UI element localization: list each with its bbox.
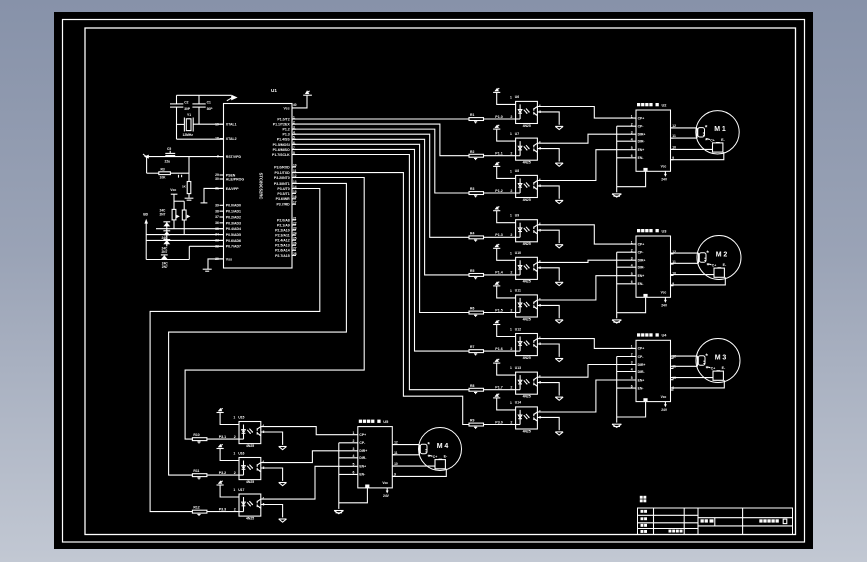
svg-text:39: 39 xyxy=(215,203,219,207)
svg-text:30: 30 xyxy=(215,177,219,181)
svg-text:21: 21 xyxy=(293,216,297,220)
wire R10 to U15 xyxy=(207,438,239,440)
svg-text:CP+: CP+ xyxy=(638,116,645,120)
svg-text:R9: R9 xyxy=(470,419,474,423)
wire M2 phase A- xyxy=(671,262,699,264)
wire crystal top rail xyxy=(177,94,232,96)
driver U2 body xyxy=(636,110,671,171)
ground U7 xyxy=(555,162,563,164)
mcu pin 36 P0.3/AD3 xyxy=(220,222,224,224)
svg-text:CP+: CP+ xyxy=(359,433,366,437)
mcu pin 16 P3.6/WR xyxy=(292,198,296,200)
svg-text:4N25: 4N25 xyxy=(523,242,531,246)
svg-text:1: 1 xyxy=(510,328,512,332)
wire P1.7 to R8 xyxy=(292,154,469,389)
mcu pin 5 P1.4/SS xyxy=(292,138,296,140)
wire M1 phase A+ xyxy=(671,127,698,129)
mcu pin 24 P2.3/A11 xyxy=(292,234,296,236)
driver U5 bottom pin xyxy=(365,485,369,488)
capacitor C2 xyxy=(170,103,183,105)
wire EA to ground bar xyxy=(204,188,224,203)
wire U7 pin1 xyxy=(497,129,516,141)
svg-text:RST/VPD: RST/VPD xyxy=(226,155,242,159)
wire U15 pin2 entry xyxy=(239,438,244,440)
wire U6 pin1 xyxy=(497,92,516,104)
optocoupler U15 body xyxy=(239,422,261,444)
outer border frame xyxy=(63,20,805,543)
svg-text:P0.0/AD0: P0.0/AD0 xyxy=(226,204,241,208)
svg-text:P3.0: P3.0 xyxy=(495,420,502,424)
wire crystal left leg xyxy=(177,123,185,125)
svg-text:4: 4 xyxy=(539,222,541,226)
svg-text:P1.5: P1.5 xyxy=(495,308,502,312)
svg-text:2N7: 2N7 xyxy=(160,213,166,217)
svg-text:Vcc: Vcc xyxy=(170,188,176,192)
opto U6 LED xyxy=(519,104,521,119)
wire R8 to U13 xyxy=(484,389,516,391)
svg-text:1: 1 xyxy=(510,169,512,173)
diode D4 on rail xyxy=(161,254,168,256)
wire opto to U3 pin5 xyxy=(537,276,636,300)
wire cap C2 branch xyxy=(176,95,178,103)
svg-text:1: 1 xyxy=(510,132,512,136)
svg-text:4N25: 4N25 xyxy=(523,161,531,165)
svg-text:16: 16 xyxy=(293,195,297,199)
svg-text:U10: U10 xyxy=(515,251,521,255)
diode chain D1 xyxy=(163,221,170,223)
wire U2 bottom pin to ground xyxy=(617,171,646,186)
svg-text:XTAL1: XTAL1 xyxy=(226,123,237,127)
svg-text:P0.5/AD5: P0.5/AD5 xyxy=(226,233,241,237)
opto U12 light arrows xyxy=(524,342,527,346)
power symbol VCC U17 xyxy=(217,484,224,486)
ground U5 xyxy=(334,510,343,512)
wire cap C1 branch xyxy=(198,95,200,103)
resistor R1 xyxy=(469,118,484,121)
driver U2 bottom pin xyxy=(643,168,647,171)
motor M4 B terminal box xyxy=(435,460,445,469)
svg-text:P1.7: P1.7 xyxy=(495,386,502,390)
wire U4 minus pins common xyxy=(616,357,618,423)
diode chain D3 xyxy=(163,239,170,241)
wire RP2 to P0.5 xyxy=(183,220,185,235)
svg-text:DIR-: DIR- xyxy=(638,140,645,144)
svg-text:EN+: EN+ xyxy=(359,465,366,469)
svg-text:40: 40 xyxy=(293,103,297,107)
wire RST line xyxy=(145,156,224,158)
ground U13 xyxy=(555,396,563,398)
svg-text:38: 38 xyxy=(215,209,219,213)
svg-text:DIR+: DIR+ xyxy=(638,363,646,367)
wire P0.5 xyxy=(146,234,223,236)
optocoupler U12 body xyxy=(516,334,538,356)
title block school name xyxy=(759,519,762,522)
driver U5 title xyxy=(359,420,362,423)
wire U16 pin2 entry xyxy=(239,474,244,476)
opto U6 phototransistor xyxy=(533,108,535,111)
optocoupler U6 body xyxy=(516,101,538,123)
wire opto U15 to U5 pin1 xyxy=(261,427,358,435)
motor M2 body xyxy=(697,236,741,280)
wire opto to U2 pin3 xyxy=(537,134,636,143)
driver U3 bottom pin xyxy=(643,294,647,297)
svg-text:2: 2 xyxy=(510,386,512,390)
wire M3 phase B- xyxy=(671,380,725,388)
svg-text:EN+: EN+ xyxy=(638,378,645,382)
mcu pin 37 P0.2/AD2 xyxy=(220,216,224,218)
wire P3.1 to R10 xyxy=(185,178,364,440)
wire U9 pin1 xyxy=(497,211,516,223)
svg-text:P3.7/RD: P3.7/RD xyxy=(276,203,290,207)
svg-text:2: 2 xyxy=(234,507,236,511)
svg-text:U9: U9 xyxy=(515,214,519,218)
svg-text:27: 27 xyxy=(293,247,297,251)
wire U17 pin1 xyxy=(220,485,239,497)
svg-text:M1: M1 xyxy=(714,126,727,133)
mcu pin 14 P3.4/T0 xyxy=(292,188,296,190)
mcu pin 33 P0.6/AD6 xyxy=(220,239,224,241)
wire P1.3 to R4 xyxy=(292,134,469,237)
svg-text:P1.4/SS: P1.4/SS xyxy=(277,138,291,142)
opto U10 light arrows xyxy=(524,266,527,270)
driver U3 pin 9 xyxy=(671,285,674,287)
svg-text:P2.5/A13: P2.5/A13 xyxy=(275,244,290,248)
svg-text:U17: U17 xyxy=(238,488,244,492)
mcu pin 35 P0.4/AD4 xyxy=(220,228,224,230)
opto U8 light arrows xyxy=(524,184,527,188)
svg-text:Vcc: Vcc xyxy=(661,165,667,169)
wire U16 pin5 to ground xyxy=(261,468,283,481)
power symbol VCC U10 xyxy=(493,247,500,249)
svg-text:1: 1 xyxy=(510,401,512,405)
svg-text:4N25: 4N25 xyxy=(523,280,531,284)
svg-text:U14: U14 xyxy=(515,401,521,405)
svg-text:Vss: Vss xyxy=(226,257,232,261)
BD arrow up xyxy=(144,219,148,224)
wire P3.0 to R9 xyxy=(292,173,469,425)
opto U13 light arrows xyxy=(524,380,527,384)
resistor R3 xyxy=(469,192,484,195)
svg-text:P3.4/T0: P3.4/T0 xyxy=(277,187,289,191)
svg-text:P1.5/MOSI: P1.5/MOSI xyxy=(273,143,290,147)
driver U2 pin 12 xyxy=(671,127,674,129)
svg-text:EN-: EN- xyxy=(638,282,644,286)
resistor R11 xyxy=(192,474,207,477)
opto U15 light arrows xyxy=(247,430,250,434)
svg-text:P1.7/SCLK: P1.7/SCLK xyxy=(272,153,290,157)
svg-text:C1: C1 xyxy=(207,100,211,104)
wire U9 pin2 entry xyxy=(516,236,521,238)
driver U4 pin 10 xyxy=(671,379,674,381)
mcu pin 10 P3.0/RXD xyxy=(292,166,296,168)
svg-text:P3.5/T1: P3.5/T1 xyxy=(277,192,289,196)
svg-text:DIR-: DIR- xyxy=(638,370,645,374)
mcu pin 17 P3.7/RD xyxy=(292,203,296,205)
wire M4 phase A- xyxy=(392,454,419,456)
svg-text:U16: U16 xyxy=(238,451,244,455)
wire U4 bottom pin to ground xyxy=(617,402,646,417)
resistor R10 xyxy=(192,438,207,441)
svg-text:CP+: CP+ xyxy=(638,242,645,246)
svg-text:P3.0/RXD: P3.0/RXD xyxy=(274,165,290,169)
opto U10 phototransistor xyxy=(533,264,535,267)
opto U16 light arrows xyxy=(247,466,250,470)
svg-text:P2.7/A15: P2.7/A15 xyxy=(275,254,290,258)
mcu pin 27 P2.6/A14 xyxy=(292,249,296,251)
wire M1 phase B+ xyxy=(671,148,713,150)
resistor R12 xyxy=(192,510,207,513)
svg-text:C+: C+ xyxy=(711,367,715,371)
svg-text:P1.3: P1.3 xyxy=(282,133,289,137)
svg-text:P3.1: P3.1 xyxy=(219,435,226,439)
ground U11 xyxy=(555,319,563,321)
wire U7 pin5 to ground xyxy=(537,149,559,162)
wire M3 phase A+ xyxy=(671,355,698,357)
svg-text:C2: C2 xyxy=(184,100,188,104)
wire U3 bottom pin to ground xyxy=(617,297,646,312)
svg-text:11: 11 xyxy=(394,451,398,455)
opto U8 phototransistor xyxy=(533,182,535,185)
wire M4 phase A+ xyxy=(392,444,419,446)
svg-text:P0.2/AD2: P0.2/AD2 xyxy=(226,215,241,219)
svg-text:4N25: 4N25 xyxy=(523,395,531,399)
svg-text:1: 1 xyxy=(510,366,512,370)
wire C2 to XTAL1 node xyxy=(176,107,178,139)
svg-text:2: 2 xyxy=(234,471,236,475)
svg-text:2: 2 xyxy=(510,271,512,275)
svg-text:12: 12 xyxy=(394,441,398,445)
svg-text:4: 4 xyxy=(539,178,541,182)
wire BD vertical xyxy=(145,223,147,259)
svg-text:P1.4: P1.4 xyxy=(495,271,502,275)
optocoupler U16 body xyxy=(239,458,261,480)
wire opto to U2 pin5 xyxy=(537,150,636,181)
svg-text:1: 1 xyxy=(510,214,512,218)
wire P1.0 to R1 xyxy=(292,118,469,120)
svg-text:25: 25 xyxy=(293,237,297,241)
opto U13 phototransistor xyxy=(533,379,535,382)
opto U9 LED xyxy=(519,223,521,238)
opto U14 phototransistor xyxy=(533,414,535,417)
wire C1 down xyxy=(198,107,200,124)
svg-text:2N7: 2N7 xyxy=(162,265,168,269)
wire P1.2 to R3 xyxy=(292,129,469,193)
svg-text:P1.3: P1.3 xyxy=(495,233,502,237)
opto U7 LED xyxy=(519,141,521,156)
opto U15 phototransistor xyxy=(256,428,258,431)
capacitor C6 marks xyxy=(178,175,180,178)
svg-text:U6: U6 xyxy=(515,95,519,99)
svg-text:4: 4 xyxy=(539,104,541,108)
resistor R6 xyxy=(469,311,484,314)
svg-text:R2: R2 xyxy=(470,150,474,154)
wire to resistor R3 xyxy=(147,172,159,174)
mcu pin 28 P2.7/A15 xyxy=(292,254,296,256)
wire U3 minus pins common xyxy=(616,252,618,318)
svg-text:U3: U3 xyxy=(662,228,668,233)
opto U9 light arrows xyxy=(524,228,527,232)
svg-text:1: 1 xyxy=(510,251,512,255)
opto U12 phototransistor xyxy=(533,340,535,343)
svg-text:22: 22 xyxy=(293,221,297,225)
wire U2 minus pins common xyxy=(616,126,618,192)
svg-text:1: 1 xyxy=(233,488,235,492)
svg-text:4: 4 xyxy=(262,496,264,500)
wire M1 phase A- xyxy=(671,137,698,139)
wire U10 pin2 entry xyxy=(516,274,521,276)
mcu pin 7 P1.6/MISO xyxy=(292,148,296,150)
resistor R9 xyxy=(469,423,484,426)
power symbol VCC U11 xyxy=(493,285,500,287)
svg-text:24V: 24V xyxy=(661,304,668,308)
wire U17 pin2 entry xyxy=(239,511,244,513)
svg-text:Vcc: Vcc xyxy=(661,291,667,295)
opto U9 phototransistor xyxy=(533,227,535,230)
svg-text:P3.1/TXD: P3.1/TXD xyxy=(275,171,291,175)
wire R3 to node xyxy=(170,172,189,174)
svg-text:C+: C+ xyxy=(712,264,716,268)
driver U3 body xyxy=(636,236,671,297)
svg-text:1: 1 xyxy=(510,289,512,293)
svg-text:P1.1: P1.1 xyxy=(495,152,502,156)
svg-text:R1: R1 xyxy=(470,113,474,117)
mcu pin 21 P2.0/A8 xyxy=(292,219,296,221)
svg-text:23: 23 xyxy=(293,226,297,230)
driver U2 pin 10 xyxy=(671,148,674,150)
wire R4 to ground xyxy=(188,194,190,198)
wire U15 pin5 to ground xyxy=(261,432,283,445)
motor M1 body xyxy=(696,111,739,154)
wire M3 phase A- xyxy=(671,365,698,367)
svg-text:P3.2/INT0: P3.2/INT0 xyxy=(274,176,290,180)
opto U8 LED xyxy=(519,178,521,193)
svg-text:P0.6/AD6: P0.6/AD6 xyxy=(226,239,241,243)
wire U9 pin5 to ground xyxy=(537,230,559,243)
svg-text:P1.0: P1.0 xyxy=(495,115,502,119)
wire U17 pin5 to ground xyxy=(261,505,283,518)
driver U2 pin 9 xyxy=(671,159,674,161)
wire R2 to U7 xyxy=(484,155,516,157)
wire U10 pin5 to ground xyxy=(537,268,559,281)
wire opto to U4 pin3 xyxy=(537,365,636,378)
optocoupler U13 body xyxy=(516,372,538,394)
title block table xyxy=(638,508,793,535)
svg-text:10K: 10K xyxy=(160,176,167,180)
opto U7 light arrows xyxy=(524,146,527,150)
svg-text:4: 4 xyxy=(262,460,264,464)
power symbol VCC U9 xyxy=(493,210,500,212)
svg-text:DIR+: DIR+ xyxy=(638,133,646,137)
svg-text:P2.0/A8: P2.0/A8 xyxy=(277,218,290,222)
svg-text:P2.1/A9: P2.1/A9 xyxy=(277,223,290,227)
svg-text:P2.2/A10: P2.2/A10 xyxy=(275,228,290,232)
mcu pin 4 P1.3 xyxy=(292,133,296,135)
opto U16 LED xyxy=(243,461,245,476)
driver U3 pin 12 xyxy=(671,253,674,255)
power symbol VCC U13 xyxy=(493,362,500,364)
motor M3 B terminal box xyxy=(713,371,723,380)
svg-text:2: 2 xyxy=(510,152,512,156)
svg-text:P1.0/T2: P1.0/T2 xyxy=(277,117,289,121)
mcu pin 39 P0.0/AD0 xyxy=(220,204,224,206)
svg-text:M3: M3 xyxy=(715,354,728,361)
mcu pin 30 ALE/PROG xyxy=(220,178,224,180)
optocoupler U8 body xyxy=(516,175,538,197)
svg-text:2: 2 xyxy=(510,420,512,424)
mcu pin 19 XTAL1 xyxy=(220,123,224,125)
wire R3 to U8 xyxy=(484,192,516,194)
wire U8 pin1 xyxy=(497,166,516,178)
wire Vss to ground xyxy=(208,259,224,269)
svg-text:R5: R5 xyxy=(470,269,474,273)
svg-text:U7: U7 xyxy=(515,132,519,136)
wire M2 phase B+ xyxy=(671,274,715,276)
svg-text:P3.2: P3.2 xyxy=(219,471,226,475)
wire crystal right leg to XTAL1 xyxy=(193,123,223,125)
svg-text:R12: R12 xyxy=(193,506,199,510)
wire opto to U4 pin1 xyxy=(537,339,636,349)
wire U11 pin1 xyxy=(497,286,516,298)
ground U12 xyxy=(555,358,563,360)
mcu pin 23 P2.2/A10 xyxy=(292,229,296,231)
power symbol VCC U16 xyxy=(217,448,224,450)
mcu pin 32 P0.7/AD7 xyxy=(220,245,224,247)
svg-text:4N25: 4N25 xyxy=(523,198,531,202)
crystal Y1 xyxy=(183,118,185,132)
svg-text:12MHz: 12MHz xyxy=(183,133,194,137)
power symbol VCC U8 xyxy=(493,165,500,167)
ground U9 xyxy=(555,244,563,246)
opto U11 phototransistor xyxy=(533,302,535,305)
svg-text:EN+: EN+ xyxy=(638,274,645,278)
wire M3 phase B+ xyxy=(671,377,714,379)
power symbol VCC U7 xyxy=(493,128,500,130)
wire P3.3 to R12 xyxy=(150,189,320,512)
title block stage label xyxy=(640,496,643,499)
svg-text:C+: C+ xyxy=(710,138,714,142)
wire U6 pin5 to ground xyxy=(537,112,559,125)
mcu pin 34 P0.5/AD5 xyxy=(220,234,224,236)
wire U10 pin1 xyxy=(497,248,516,260)
opto U12 LED xyxy=(519,337,521,352)
svg-text:4: 4 xyxy=(539,336,541,340)
svg-text:Vcc: Vcc xyxy=(382,481,388,485)
wire P1.4 to R5 xyxy=(292,139,469,275)
wire U15 pin1 xyxy=(220,413,239,425)
svg-text:P2.6/A14: P2.6/A14 xyxy=(275,249,290,253)
resistor R2 xyxy=(469,154,484,157)
svg-text:4N25: 4N25 xyxy=(523,317,531,321)
diode DP2 xyxy=(187,215,191,219)
svg-text:R3: R3 xyxy=(470,187,474,191)
wire U7 pin2 entry xyxy=(516,155,521,157)
resistor R3 xyxy=(159,172,171,175)
svg-text:4: 4 xyxy=(262,424,264,428)
svg-text:U4: U4 xyxy=(662,333,668,338)
svg-text:4N25: 4N25 xyxy=(246,516,254,520)
svg-text:U2: U2 xyxy=(662,102,668,107)
mcu pin 9 RST/VPD xyxy=(220,156,224,158)
mcu pin 13 P3.3/INT1 xyxy=(292,182,296,184)
wire P1.5 to R6 xyxy=(292,144,469,312)
motor M4 body xyxy=(419,428,462,471)
driver U4 bottom pin xyxy=(643,398,647,401)
wire node down to R4 xyxy=(188,157,190,182)
driver U4 pin 11 xyxy=(671,367,674,369)
motor M3 body xyxy=(696,339,740,383)
optocoupler U9 body xyxy=(516,220,538,242)
ground U16 xyxy=(279,482,287,484)
